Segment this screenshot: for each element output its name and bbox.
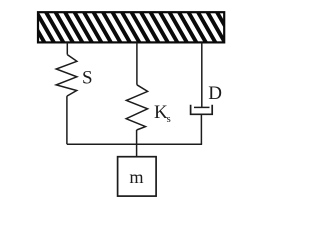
svg-text:D: D bbox=[208, 83, 222, 104]
wire: damper to bottom bar bbox=[200, 114, 202, 144]
spring S bbox=[56, 55, 77, 97]
spring Ks bbox=[126, 85, 147, 130]
wire: ceiling to spring S bbox=[66, 42, 68, 54]
bottom connecting bar bbox=[67, 143, 202, 145]
ceiling bar outline bbox=[38, 12, 224, 42]
wire: spring Ks to mass bbox=[136, 130, 138, 157]
svg-text:Ks: Ks bbox=[154, 102, 171, 125]
wire: ceiling to spring Ks bbox=[136, 42, 138, 84]
damper D: piston plate bbox=[194, 106, 210, 108]
wire: ceiling to damper rod bbox=[201, 42, 203, 107]
fixed support (hatched ceiling bar) bbox=[17, 12, 244, 43]
damper D: cylinder cup bbox=[191, 105, 213, 115]
svg-text:m: m bbox=[129, 167, 143, 187]
mass block m bbox=[118, 157, 157, 196]
svg-text:S: S bbox=[82, 68, 93, 89]
wire: spring S to bottom bar bbox=[66, 96, 68, 144]
